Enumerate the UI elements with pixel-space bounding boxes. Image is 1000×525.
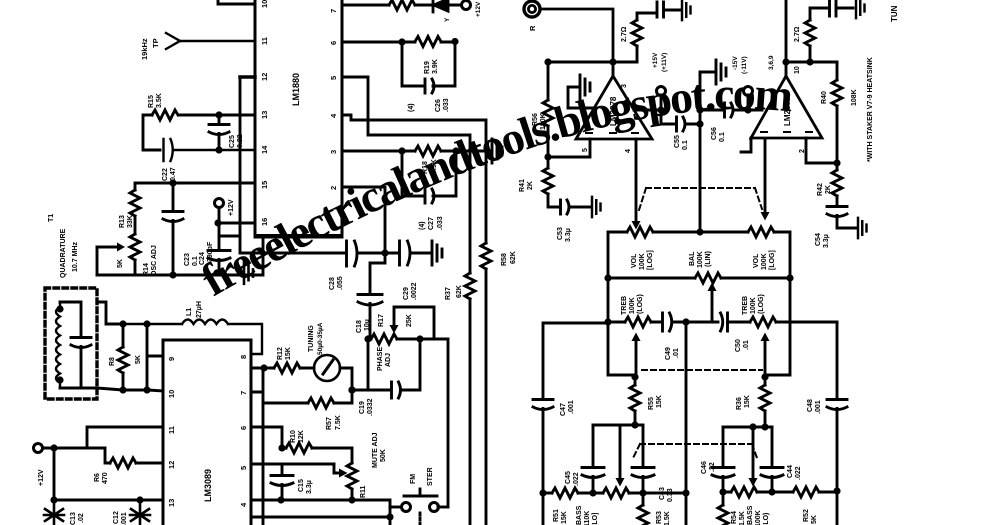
svg-text:T1: T1: [48, 214, 55, 222]
wire to pin11: [87, 427, 163, 448]
svg-text:2K: 2K: [527, 181, 534, 190]
resistor R6 470: [94, 448, 163, 484]
svg-text:BASS: BASS: [747, 505, 754, 525]
svg-text:.055: .055: [337, 276, 344, 290]
svg-text:10: 10: [794, 66, 801, 74]
TREB2 wiper arrow: [761, 333, 770, 378]
svg-text:R56: R56: [532, 113, 539, 126]
svg-text:0.22: 0.22: [237, 134, 244, 148]
+12V terminal bottom left: [34, 444, 106, 487]
svg-text:LM1880: LM1880: [291, 73, 301, 106]
wire x700 signal bus: [699, 110, 702, 232]
svg-text:100K: 100K: [629, 297, 636, 314]
svg-text:7.5K: 7.5K: [335, 415, 342, 430]
wire T1 top exit: [97, 302, 123, 324]
ground amp2 bypass: [700, 60, 726, 110]
svg-text:R15: R15: [148, 95, 155, 108]
svg-text:R41: R41: [519, 179, 526, 192]
wire pin7 row with diode to +12V: [342, 0, 482, 22]
svg-text:(LOG): (LOG): [637, 294, 644, 314]
svg-text:(LO): (LO): [763, 513, 770, 525]
svg-text:2.7Ω: 2.7Ω: [621, 26, 628, 42]
resistor R52 5K: [793, 487, 837, 524]
svg-text:MUTE ADJ: MUTE ADJ: [372, 432, 379, 468]
wire pin5 row: [251, 463, 334, 466]
svg-text:C56: C56: [711, 127, 718, 140]
capacitor C50 .01: [686, 313, 750, 352]
svg-text:Y: Y: [444, 17, 451, 22]
wire secondary leg: [143, 320, 163, 393]
U2 right pin numbers: [239, 355, 248, 507]
svg-text:4: 4: [329, 113, 338, 118]
resistor 2.7ohm zobel right: [794, 8, 827, 62]
svg-text:50K: 50K: [380, 449, 387, 462]
potentiometer R17 25K PHASE ADJ: [364, 307, 448, 507]
wire pin10 to top edge: [218, 0, 255, 4]
svg-text:108K: 108K: [851, 89, 858, 106]
potentiometer BASS2 100K LOG: [723, 487, 793, 525]
svg-text:R18: R18: [422, 161, 429, 174]
svg-text:.02: .02: [78, 513, 85, 523]
svg-text:4: 4: [625, 149, 632, 153]
resistor R37 62K: [445, 273, 475, 525]
svg-text:C19: C19: [359, 401, 366, 414]
svg-text:[LOG]: [LOG]: [769, 250, 776, 270]
svg-text:.22: .22: [709, 462, 716, 472]
svg-text:3.3µ: 3.3µ: [823, 234, 830, 248]
svg-text:R37: R37: [445, 287, 452, 300]
test point TP 19kHz: [140, 33, 255, 60]
svg-text:+12V: +12V: [475, 1, 482, 17]
wire bass node row right: [723, 423, 772, 430]
svg-text:470: 470: [102, 472, 109, 484]
svg-text:C53: C53: [557, 227, 564, 240]
BASS1 wiper arrow: [616, 425, 625, 487]
svg-text:C44: C44: [787, 465, 794, 478]
svg-text:(4): (4): [419, 221, 426, 230]
svg-text:C49: C49: [665, 347, 672, 360]
svg-text:R36: R36: [736, 397, 743, 410]
wire pin2 step: [342, 187, 385, 253]
wire subcarrier row: [240, 236, 345, 253]
transformer T1 dashed can: [45, 214, 97, 399]
resistor R15 3.5K: [148, 93, 178, 120]
svg-text:[LOG]: [LOG]: [647, 250, 654, 270]
resistor R55 15K: [630, 373, 663, 428]
svg-text:BAL: BAL: [689, 251, 696, 266]
svg-text:C12: C12: [113, 511, 120, 524]
svg-text:27µH: 27µH: [196, 301, 203, 318]
wire C48 bus: [836, 322, 839, 398]
ground subcarrier row: [432, 241, 442, 265]
svg-text:.01: .01: [673, 348, 680, 358]
watermark freeelectricalandtools.blogspot.com: [193, 68, 795, 306]
wire amp1 pin2 row: [634, 106, 665, 113]
svg-text:freeelectricalandtools.blogspo: freeelectricalandtools.blogspot.com: [193, 68, 795, 306]
svg-text:13: 13: [167, 499, 176, 507]
potentiometer BAL 100K LIN: [604, 251, 793, 283]
ground amp1 bypass: [568, 75, 595, 108]
capacitor C19 .0332: [348, 339, 420, 416]
svg-text:12K: 12K: [298, 430, 305, 443]
capacitor C15 3.3u: [271, 464, 313, 499]
svg-text:2K: 2K: [825, 185, 832, 194]
ground on rail: [244, 262, 253, 284]
svg-text:C18: C18: [356, 320, 363, 333]
wire output node left: [548, 61, 637, 64]
IC U2 LM3089 body: [163, 340, 251, 525]
svg-text:25K: 25K: [406, 314, 413, 327]
capacitor C53 3.3u: [557, 200, 590, 242]
svg-text:3: 3: [621, 84, 628, 88]
svg-text:+12V: +12V: [228, 199, 235, 216]
T1 winding: [56, 302, 64, 388]
capacitor C51 zobel right: [830, 1, 854, 16]
ground C54: [858, 218, 867, 238]
svg-text:1.5K: 1.5K: [664, 511, 671, 525]
svg-text:STER: STER: [427, 467, 434, 486]
svg-text:100K: 100K: [639, 253, 646, 270]
op-amp U3 LM2878 left: [576, 62, 652, 153]
svg-text:5: 5: [239, 466, 248, 470]
svg-text:5K: 5K: [135, 355, 142, 364]
capacitor C54 3.3u: [815, 207, 856, 249]
wire pin4 rail: [251, 496, 394, 525]
svg-text:15: 15: [260, 181, 269, 189]
ground zobel right: [856, 0, 865, 18]
ground zobel left: [682, 0, 691, 20]
svg-text:5: 5: [329, 76, 338, 80]
svg-text:15K: 15K: [744, 395, 751, 408]
svg-text:C55: C55: [674, 135, 681, 148]
capacitor C49 .01: [663, 313, 690, 360]
inductor L1 27uH: [123, 301, 262, 354]
svg-text:C24: C24: [199, 252, 206, 265]
svg-text:BASS: BASS: [576, 505, 583, 525]
svg-text:R51: R51: [553, 509, 560, 522]
svg-text:.022: .022: [795, 466, 802, 480]
svg-text:C29: C29: [403, 287, 410, 300]
wire bass node row left: [593, 424, 643, 427]
wire mute bus: [262, 403, 265, 525]
wire amp2 input to VOL2 wiper: [741, 138, 770, 221]
svg-text:[LO]: [LO]: [592, 513, 599, 525]
svg-text:(LOG): (LOG): [758, 294, 765, 314]
wire T1 bottom exit to pin10 rail: [97, 388, 163, 391]
svg-text:3.9K: 3.9K: [431, 159, 438, 174]
terminal +15V supply: [652, 52, 668, 110]
svg-text:3.5K: 3.5K: [156, 93, 163, 108]
svg-text:4: 4: [239, 502, 248, 507]
svg-text:100K: 100K: [755, 510, 762, 525]
+12V terminal top: [215, 199, 236, 250]
svg-text:C22: C22: [162, 168, 169, 181]
capacitor C22 0.47: [162, 139, 255, 181]
resistor R19 3.9K: [342, 37, 459, 75]
svg-text:.001: .001: [815, 400, 822, 414]
svg-text:5K: 5K: [811, 515, 818, 524]
svg-text:R10: R10: [290, 430, 297, 443]
svg-text:(4): (4): [408, 103, 415, 112]
wire center bus x686: [682, 322, 689, 525]
resistor R18 3.9K: [342, 146, 490, 174]
svg-text:.001: .001: [121, 512, 128, 525]
potentiometer TREB2 100K LOG: [742, 294, 837, 327]
resistor R41 2K: [519, 157, 558, 207]
capacitor C48 .001: [807, 399, 847, 525]
svg-text:R52: R52: [803, 509, 810, 522]
svg-text:10.7 MHz: 10.7 MHz: [72, 242, 79, 272]
svg-text:100K: 100K: [697, 251, 704, 268]
svg-text:VOL: VOL: [753, 253, 760, 268]
capacitor C24 390pF: [199, 219, 255, 276]
resistor R13 33K: [119, 190, 140, 228]
svg-text:ADJ: ADJ: [385, 353, 392, 367]
svg-text:.01: .01: [743, 340, 750, 350]
capacitor C55 0.1: [661, 110, 704, 150]
capacitor C26 .033 loop: [402, 42, 455, 112]
svg-text:3.3µ: 3.3µ: [306, 480, 313, 494]
svg-text:R17: R17: [378, 314, 385, 327]
svg-text:0.33: 0.33: [667, 488, 674, 502]
capacitor C29 .0022: [385, 241, 430, 300]
svg-text:15K: 15K: [561, 511, 568, 524]
svg-text:33K: 33K: [127, 215, 134, 228]
svg-text:13: 13: [260, 111, 269, 119]
svg-text:PHASE: PHASE: [377, 347, 384, 371]
tuning meter M1: [308, 322, 352, 390]
svg-text:.001: .001: [568, 400, 575, 414]
wire pin15 rail: [135, 183, 255, 190]
capacitor C56 0.1: [696, 103, 762, 142]
svg-text:C48: C48: [807, 399, 814, 412]
svg-text:QUADRATURE: QUADRATURE: [60, 228, 67, 278]
svg-text:R: R: [528, 25, 537, 31]
svg-text:100K: 100K: [750, 297, 757, 314]
svg-text:10µ: 10µ: [364, 319, 371, 331]
capacitor C44 .022: [761, 427, 802, 496]
svg-text:-15V: -15V: [732, 56, 739, 70]
svg-text:11: 11: [167, 426, 176, 434]
svg-text:.022: .022: [573, 472, 580, 486]
svg-text:C15: C15: [298, 479, 305, 492]
svg-text:+15V: +15V: [652, 52, 659, 68]
resistor R14 OSC ADJ (pot): [97, 216, 158, 276]
svg-text:6: 6: [239, 426, 248, 430]
gang dashes BASS: [632, 444, 757, 460]
svg-text:11: 11: [260, 37, 269, 45]
svg-text:C47: C47: [560, 403, 567, 416]
svg-text:12: 12: [260, 73, 269, 81]
capacitor C18 10u: [356, 253, 385, 339]
resistor R10 12K: [251, 427, 352, 463]
svg-text:R58: R58: [501, 253, 508, 266]
svg-text:7: 7: [239, 391, 248, 395]
svg-text:FM: FM: [410, 474, 417, 484]
svg-text:5K: 5K: [117, 259, 124, 268]
svg-text:R8: R8: [109, 357, 116, 366]
wire pin5 net to R37 bus: [342, 77, 470, 273]
svg-text:5: 5: [582, 148, 589, 152]
capacitor C43 0.33: [632, 425, 674, 502]
capacitor C28 .055: [329, 241, 389, 290]
gang dashes VOL: [639, 188, 762, 210]
svg-text:TP: TP: [151, 38, 160, 48]
svg-text:R13: R13: [119, 215, 126, 228]
svg-text:C13: C13: [70, 512, 77, 525]
svg-text:8: 8: [239, 355, 248, 359]
wire pin4 net to R58 bus: [342, 115, 486, 243]
switch FM STER: [390, 467, 448, 525]
svg-text:+12V: +12V: [38, 469, 45, 486]
svg-text:12: 12: [167, 461, 176, 469]
svg-text:R11: R11: [360, 485, 367, 498]
ground pin3: [492, 139, 502, 163]
U2 left pin numbers: [167, 357, 176, 507]
svg-text:15K: 15K: [285, 347, 292, 360]
U1 right pin numbers 7-2: [329, 9, 338, 190]
svg-text:C50: C50: [735, 339, 742, 352]
gang dashes TREB: [642, 369, 762, 371]
svg-text:VOL: VOL: [631, 253, 638, 268]
svg-text:OSC ADJ: OSC ADJ: [151, 245, 158, 276]
capacitor C46 .22: [701, 427, 734, 496]
svg-text:R40: R40: [821, 91, 828, 104]
wire pin13 ground rail: [50, 444, 163, 503]
svg-text:.033: .033: [437, 216, 444, 230]
svg-text:16: 16: [260, 218, 269, 226]
op-amp U4 LM2878 right: [751, 0, 822, 153]
resistor R36 15K: [736, 373, 770, 430]
svg-text:R53: R53: [656, 511, 663, 524]
svg-text:9: 9: [167, 357, 176, 361]
svg-text:7: 7: [329, 9, 338, 13]
svg-text:10: 10: [260, 0, 269, 8]
potentiometer VOL1 100K LOG: [608, 227, 704, 270]
svg-text:*WITH STAKER V7-9 HEATSINK: *WITH STAKER V7-9 HEATSINK: [867, 57, 874, 162]
wire left tone bus x608: [604, 232, 634, 375]
svg-text:R57: R57: [326, 417, 333, 430]
terminal -15V supply: [732, 56, 753, 110]
svg-text:0.47: 0.47: [170, 167, 177, 181]
potentiometer TREB1 100K LOG: [608, 294, 660, 327]
svg-text:3.9K: 3.9K: [432, 59, 439, 74]
resistor R56 180K: [532, 58, 553, 160]
svg-text:1.5K: 1.5K: [739, 511, 746, 525]
svg-text:C23: C23: [184, 253, 191, 266]
svg-text:62K: 62K: [456, 285, 463, 298]
svg-text:0.1: 0.1: [192, 256, 199, 266]
wire right tone bus x790: [766, 278, 790, 375]
wire pin5 stub left amp: [548, 139, 590, 157]
resistor R58 62K: [481, 243, 517, 525]
svg-text:0.1: 0.1: [682, 140, 689, 150]
resistor R57 7.5K: [251, 368, 356, 430]
U1 left pin numbers 10-16: [260, 0, 269, 226]
potentiometer R11 MUTE ADJ 50K: [334, 432, 387, 503]
resistor R8 5K: [109, 320, 142, 393]
svg-text:R42: R42: [817, 183, 824, 196]
BASS2 wiper arrow: [749, 427, 758, 487]
svg-text:(+11V): (+11V): [661, 53, 668, 72]
resistor R40 108K: [821, 62, 858, 163]
capacitor C12 .001 bypass: [113, 500, 150, 525]
ground rail node: [97, 238, 263, 275]
svg-text:TUN: TUN: [890, 5, 899, 22]
BAL wiper arrow: [708, 283, 717, 323]
svg-text:110K: 110K: [584, 511, 591, 525]
svg-text:R6: R6: [94, 473, 101, 482]
resistor R53 1.5K: [638, 493, 671, 525]
svg-text:R55: R55: [648, 397, 655, 410]
svg-text:L1: L1: [186, 308, 193, 316]
svg-text:.0332: .0332: [367, 398, 374, 416]
svg-text:R12: R12: [277, 347, 284, 360]
svg-text:R54: R54: [731, 511, 738, 524]
svg-text:C54: C54: [815, 233, 822, 246]
svg-text:.0022: .0022: [411, 282, 418, 300]
potentiometer VOL2 100K LOG: [700, 227, 790, 278]
svg-text:LM3089: LM3089: [203, 469, 213, 502]
svg-text:.033: .033: [443, 98, 450, 112]
wire amp2 pin2 stub: [806, 138, 841, 167]
IC U1 LM1880 body: [255, 0, 342, 237]
svg-text:TUNING: TUNING: [308, 325, 315, 352]
svg-text:10: 10: [167, 390, 176, 398]
svg-text:(-11V): (-11V): [741, 56, 748, 74]
svg-text:390pF: 390pF: [207, 241, 214, 262]
svg-text:C25: C25: [229, 135, 236, 148]
svg-text:LM2878: LM2878: [609, 96, 618, 126]
resistor 2.7ohm zobel left: [609, 13, 655, 66]
capacitor C13 bypass: [44, 500, 85, 525]
svg-text:2: 2: [329, 186, 338, 190]
svg-text:3.3µ: 3.3µ: [565, 228, 572, 242]
wire pin13 row: [143, 115, 255, 150]
wire output node right: [782, 58, 837, 65]
svg-text:0.1: 0.1: [719, 132, 726, 142]
svg-text:15K: 15K: [656, 395, 663, 408]
svg-text:62K: 62K: [510, 251, 517, 264]
TREB1 wiper arrow: [632, 333, 641, 378]
svg-text:LM2878: LM2878: [783, 96, 792, 126]
potentiometer BASS1 110K LOG: [576, 488, 686, 525]
wire C47 bus: [543, 323, 608, 398]
svg-text:3: 3: [329, 150, 338, 154]
capacitor C52 0.1 zobel left: [657, 2, 680, 17]
svg-text:TREB: TREB: [621, 296, 628, 315]
svg-text:14: 14: [260, 145, 269, 154]
svg-text:19kHz: 19kHz: [140, 38, 149, 60]
capacitor C25 0.22: [209, 111, 244, 153]
wire amp1 input to VOL1 wiper: [632, 139, 641, 230]
capacitor C47 .001: [533, 400, 575, 525]
svg-text:50µ0-35µA: 50µ0-35µA: [317, 322, 324, 355]
jack J1 R output: [524, 1, 613, 62]
svg-text:3,6,9: 3,6,9: [768, 55, 775, 70]
resistor R54 1.5K: [718, 492, 746, 525]
svg-text:C28: C28: [329, 277, 336, 290]
capacitor C23 0.1: [163, 179, 199, 278]
T1 tuning capacitor: [60, 302, 97, 388]
svg-text:6: 6: [329, 41, 338, 45]
svg-text:100K: 100K: [761, 253, 768, 270]
svg-text:C46: C46: [701, 461, 708, 474]
svg-text:C27: C27: [428, 217, 435, 230]
capacitor C27 .033 loop: [402, 151, 456, 230]
resistor R12 15K tuning row: [251, 347, 314, 373]
svg-text:C45: C45: [565, 471, 572, 484]
